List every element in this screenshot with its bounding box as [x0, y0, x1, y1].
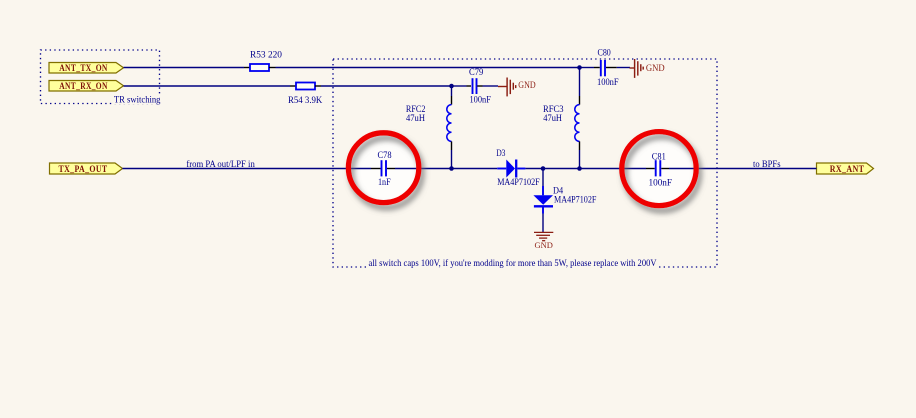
- wire D4 top: [542, 169, 544, 187]
- wire C78 to junction RFC2: [395, 168, 452, 170]
- wire junction to C79: [452, 85, 467, 87]
- wire RFC3 top: [579, 68, 581, 97]
- ground GND at C80: [630, 59, 666, 78]
- svg-text:100nF: 100nF: [470, 95, 491, 106]
- pin stub R54 left: [290, 85, 296, 87]
- wire R54 to junction: [321, 85, 452, 87]
- junction main line RFC3: [577, 166, 582, 171]
- capacitor C78: [378, 150, 392, 188]
- svg-text:R53 220: R53 220: [250, 50, 282, 61]
- svg-text:C79: C79: [469, 67, 483, 78]
- capacitor C80: [597, 48, 619, 88]
- wire ANT_TX_ON to R53: [124, 67, 245, 69]
- wire R53 to junction: [276, 67, 580, 69]
- junction main line RFC2: [449, 166, 454, 171]
- pin stub C78 left: [371, 168, 381, 170]
- junction on TX line at RFC3: [577, 65, 582, 70]
- wire C80 to GND: [617, 67, 630, 69]
- svg-text:all switch caps 100V, if you'r: all switch caps 100V, if you're modding …: [369, 258, 657, 269]
- white halo under circled cap C81: [622, 133, 696, 205]
- junction on RX line at RFC2: [449, 84, 454, 89]
- pin stub C80 right: [606, 67, 617, 69]
- wire RFC3 junction to C81: [580, 168, 647, 170]
- svg-text:GND: GND: [518, 80, 536, 90]
- svg-text:TX_PA_OUT: TX_PA_OUT: [59, 165, 108, 175]
- wire ANT_RX_ON to R54: [124, 85, 291, 87]
- wire C79 to GND: [483, 85, 499, 87]
- pin stub RFC2 top: [451, 96, 453, 105]
- net label ANT_RX_ON: [49, 81, 124, 93]
- svg-text:RX_ANT: RX_ANT: [830, 165, 865, 175]
- svg-text:C80: C80: [598, 48, 611, 59]
- wire junction to C80: [580, 67, 595, 69]
- note: all switch caps 100V: [366, 257, 658, 270]
- pin stub RFC3 top: [579, 96, 581, 105]
- wire RFC2 top: [451, 86, 453, 96]
- diode D4: [533, 185, 596, 213]
- ground GND at C79: [498, 78, 536, 97]
- wire D4 to GND: [542, 214, 544, 233]
- pin stub RFC2 bottom: [451, 141, 453, 150]
- capacitor C79: [469, 67, 491, 106]
- wire junction to D3: [452, 168, 498, 170]
- wire C81 to RX_ANT: [669, 168, 817, 170]
- pin stub R53 right: [269, 67, 276, 69]
- dotted box TR switching: [41, 50, 160, 104]
- pin stub RFC3 bottom: [579, 141, 581, 150]
- pin stub R53 left: [244, 67, 250, 69]
- net label ANT_TX_ON: [49, 63, 124, 75]
- svg-text:1nF: 1nF: [378, 177, 391, 188]
- wire RFC2 bottom: [451, 150, 453, 169]
- wire junction D4 to junction RFC3: [543, 168, 580, 170]
- svg-text:TR switching: TR switching: [114, 95, 161, 105]
- pin stub R54 right: [315, 85, 321, 87]
- svg-text:47uH: 47uH: [406, 113, 425, 124]
- capacitor C81: [649, 151, 673, 188]
- svg-text:GND: GND: [646, 63, 665, 73]
- net label TX_PA_OUT: [50, 163, 123, 175]
- svg-text:D3: D3: [496, 148, 505, 159]
- diode D3: [496, 148, 540, 188]
- svg-text:100nF: 100nF: [597, 77, 619, 88]
- svg-text:MA4P7102F: MA4P7102F: [554, 195, 596, 206]
- resistor R53: [250, 50, 282, 71]
- resistor R54: [288, 83, 322, 107]
- pin stub C80 left: [594, 67, 600, 69]
- pin stub C78 right: [387, 168, 395, 170]
- wire TX_PA_OUT to C78: [123, 168, 372, 170]
- svg-text:from PA out/LPF in: from PA out/LPF in: [186, 159, 255, 170]
- pin stub C81 left: [646, 168, 655, 170]
- junction main line D4: [541, 166, 546, 171]
- white halo under circled cap C78: [349, 134, 419, 202]
- pin stub C81 right: [661, 168, 669, 170]
- svg-text:C78: C78: [378, 150, 392, 161]
- TR switching label: [112, 95, 162, 105]
- pin stub C79 left: [467, 85, 472, 87]
- annotation red circle around C78: [348, 133, 418, 203]
- annotation red circle around C81: [622, 132, 696, 206]
- svg-text:47uH: 47uH: [543, 113, 562, 124]
- svg-text:ANT_TX_ON: ANT_TX_ON: [59, 64, 108, 74]
- svg-text:R54 3.9K: R54 3.9K: [288, 95, 322, 106]
- svg-text:ANT_RX_ON: ANT_RX_ON: [59, 82, 108, 92]
- net label RX_ANT: [817, 163, 874, 175]
- wire D3 to junction D4: [525, 168, 543, 170]
- svg-text:to BPFs: to BPFs: [753, 160, 781, 170]
- inductor RFC3: [543, 104, 580, 141]
- inductor RFC2: [406, 104, 452, 141]
- svg-text:MA4P7102F: MA4P7102F: [497, 177, 540, 188]
- dotted box switch caps: [333, 59, 717, 267]
- pin stub C79 right: [477, 85, 482, 87]
- svg-text:100nF: 100nF: [649, 177, 673, 188]
- wire RFC3 bottom: [579, 150, 581, 169]
- svg-text:C81: C81: [652, 151, 666, 162]
- ground GND at D4: [534, 232, 553, 250]
- svg-text:GND: GND: [535, 241, 553, 250]
